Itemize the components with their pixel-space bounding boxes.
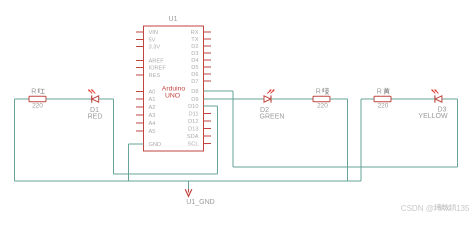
svg-text:3.3V: 3.3V	[149, 45, 161, 51]
svg-text:U1: U1	[169, 16, 178, 23]
svg-text:RES: RES	[149, 73, 161, 79]
wire GND vertical	[128, 144, 130, 181]
svg-text:D13: D13	[188, 126, 198, 132]
svg-text:5V: 5V	[149, 37, 156, 43]
svg-text:U1_GND: U1_GND	[186, 199, 214, 206]
LED D2 GREEN	[264, 96, 271, 102]
wire D1 to corner	[99, 98, 114, 100]
svg-text:CSDN @: CSDN @	[401, 204, 434, 213]
pin A4	[136, 122, 144, 124]
pin SCL	[204, 142, 212, 144]
wire ground rail	[15, 180, 362, 182]
svg-text:D3: D3	[191, 51, 198, 57]
svg-text:VIN: VIN	[149, 30, 158, 36]
resistor R2 (R绿 220)	[313, 96, 330, 101]
pin RX	[204, 31, 212, 33]
wire R3 to D3	[391, 98, 435, 100]
pin D9	[204, 98, 212, 100]
svg-text:D4: D4	[191, 58, 198, 64]
svg-text:D12: D12	[188, 119, 198, 125]
wire vertical to pin D10	[217, 106, 219, 174]
svg-text:R: R	[31, 89, 36, 96]
svg-text:A3: A3	[149, 113, 156, 119]
pin D8	[204, 90, 212, 92]
pin D5	[204, 66, 212, 68]
wire red branch top	[15, 98, 30, 100]
wire R2 to corner	[330, 98, 348, 100]
svg-text:RX: RX	[191, 30, 199, 36]
pin D4	[204, 59, 212, 61]
pin IOREF	[136, 67, 144, 69]
pin AREF	[136, 60, 144, 62]
svg-text:A4: A4	[149, 121, 156, 127]
wire yellow ground vertical	[360, 99, 362, 181]
pin RES	[136, 74, 144, 76]
wire yellow row left	[361, 98, 374, 100]
resistor R1 (R红 220)	[29, 96, 46, 101]
wire vertical x=113.5	[113, 99, 115, 174]
svg-text:D7: D7	[191, 79, 198, 85]
pin SDA	[204, 135, 212, 137]
svg-text:220: 220	[317, 102, 328, 109]
svg-text:IOREF: IOREF	[149, 66, 167, 72]
svg-text:SDA: SDA	[187, 134, 199, 140]
wire pin D9 to LED D2	[204, 98, 264, 100]
LED D1 RED	[92, 96, 99, 102]
wire R1 to D1	[46, 98, 92, 100]
svg-text:Arduino: Arduino	[162, 85, 186, 92]
wire corner to D3	[442, 98, 458, 100]
svg-text:D2: D2	[191, 44, 198, 50]
svg-text:A1: A1	[149, 97, 156, 103]
svg-text:R: R	[377, 89, 382, 96]
wire GND pin to corner	[129, 143, 144, 145]
ground arrow U1_GND	[185, 189, 192, 196]
svg-text:AREF: AREF	[149, 59, 165, 65]
svg-text:GREEN: GREEN	[260, 114, 285, 121]
wire vertical x=457.5	[457, 99, 459, 167]
pin A0	[136, 90, 144, 92]
pin TX	[204, 38, 212, 40]
pin D3	[204, 52, 212, 54]
wire red branch left vertical	[14, 99, 16, 181]
svg-text:220: 220	[378, 102, 389, 109]
svg-text:SCL: SCL	[187, 141, 198, 147]
pin GND	[136, 143, 144, 145]
pin D13	[204, 127, 212, 129]
wire horizontal y=167	[233, 166, 458, 168]
svg-text:A2: A2	[149, 105, 156, 111]
pin D2	[204, 45, 212, 47]
svg-text:GND: GND	[149, 142, 162, 148]
svg-text:TX: TX	[191, 37, 198, 43]
svg-text:D10: D10	[188, 104, 198, 110]
wire pin D10 stub to vertical	[204, 105, 218, 107]
svg-text:R: R	[316, 89, 321, 96]
IC U1 Arduino UNO body	[144, 26, 204, 151]
pin A5	[136, 130, 144, 132]
svg-text:D9: D9	[191, 97, 198, 103]
LED D3 YELLOW	[435, 96, 442, 102]
pin VIN	[136, 31, 144, 33]
svg-text:135: 135	[456, 204, 470, 213]
ground symbol stub	[188, 181, 190, 190]
pin 5V	[136, 38, 144, 40]
svg-text:UNO: UNO	[165, 92, 180, 99]
svg-text:220: 220	[32, 102, 43, 109]
svg-text:D6: D6	[191, 72, 198, 78]
pin A3	[136, 114, 144, 116]
wire green ground vertical	[347, 99, 349, 181]
wire D2 to R2	[271, 98, 313, 100]
pin 3.3V	[136, 46, 144, 48]
pin D12	[204, 120, 212, 122]
pin A1	[136, 98, 144, 100]
svg-text:A0: A0	[149, 89, 156, 95]
svg-text:D5: D5	[191, 65, 198, 71]
svg-text:D11: D11	[188, 111, 198, 117]
svg-text:D8: D8	[191, 89, 198, 95]
wire horizontal y=174	[114, 173, 218, 175]
pin A2	[136, 106, 144, 108]
wire vertical x=233	[232, 91, 234, 167]
pin D6	[204, 73, 212, 75]
svg-text:YELLOW: YELLOW	[418, 113, 448, 120]
svg-text:RED: RED	[88, 114, 103, 121]
pin D7	[204, 80, 212, 82]
wire pin D8 right	[204, 90, 234, 92]
svg-text:A5: A5	[149, 129, 156, 135]
resistor R3 (R黄 220)	[374, 96, 391, 101]
pin D11	[204, 112, 212, 114]
pin D10	[204, 105, 212, 107]
